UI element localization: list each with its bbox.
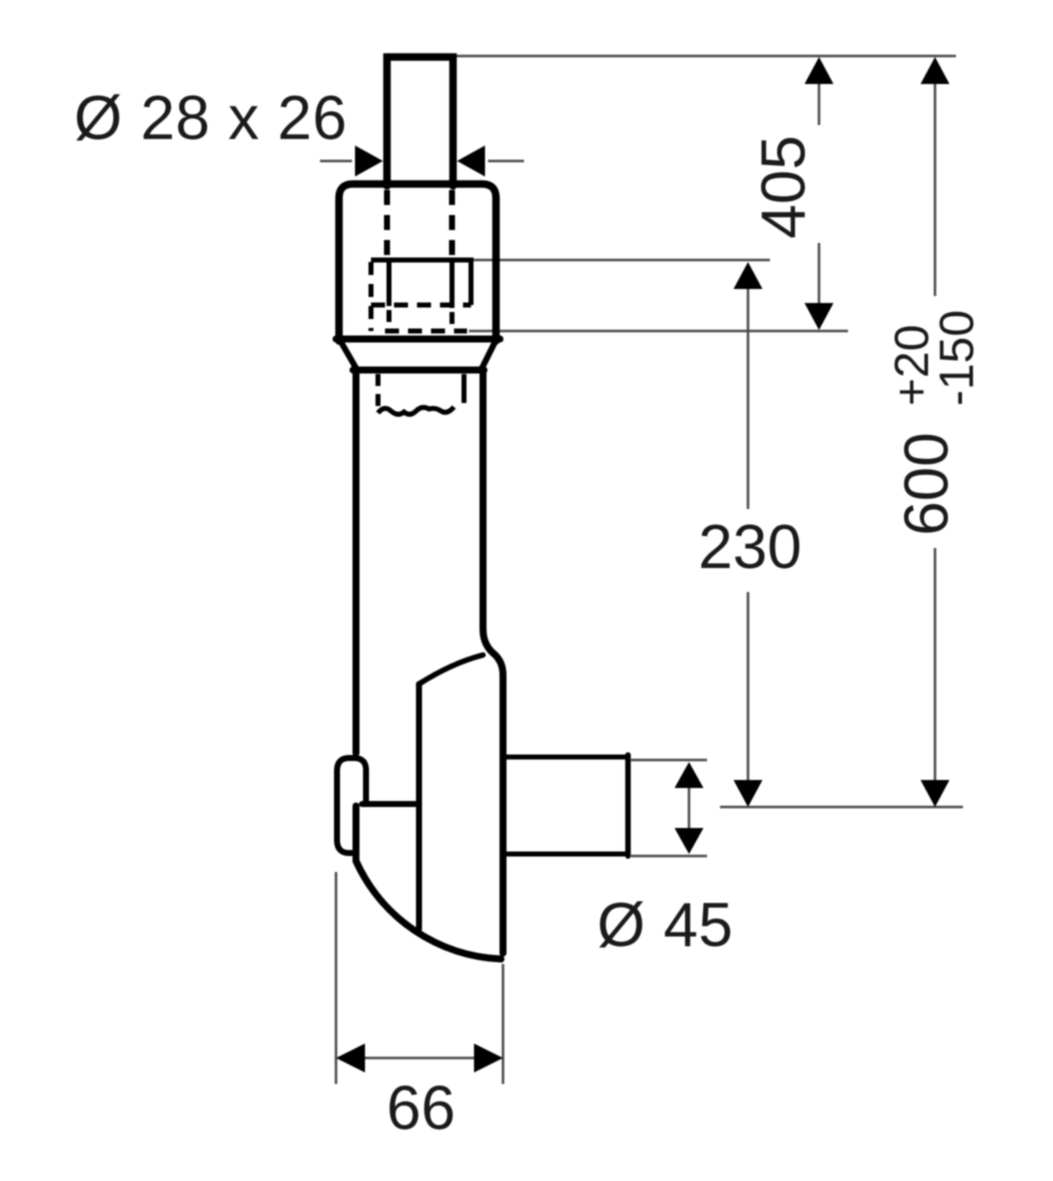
svg-text:-150: -150 xyxy=(931,310,984,406)
svg-text:230: 230 xyxy=(698,513,801,582)
svg-text:Ø 28 x 26: Ø 28 x 26 xyxy=(74,84,347,153)
svg-text:66: 66 xyxy=(387,1074,456,1143)
svg-text:405: 405 xyxy=(750,135,819,238)
svg-text:Ø 45: Ø 45 xyxy=(597,891,733,960)
svg-text:600: 600 xyxy=(893,432,962,535)
